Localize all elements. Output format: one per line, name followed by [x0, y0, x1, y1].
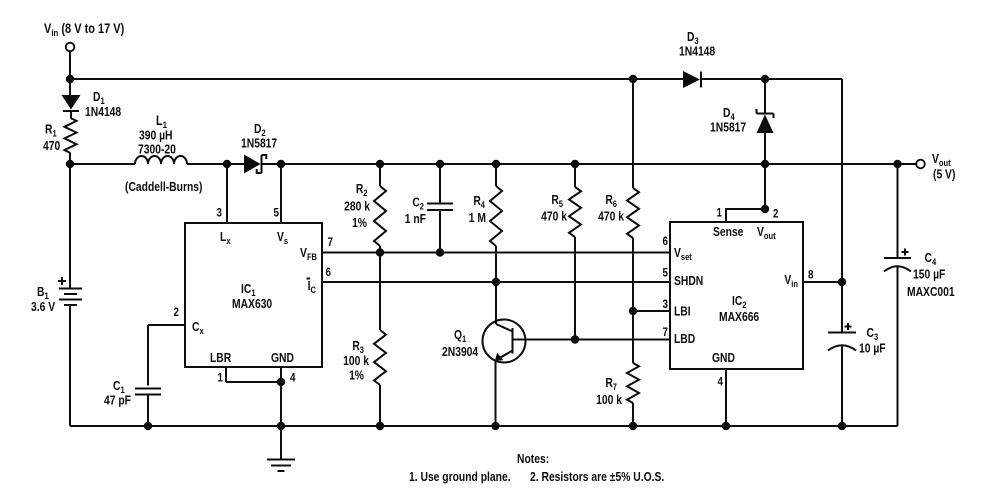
label Notes	[409, 453, 664, 484]
diode D3	[683, 71, 701, 88]
node R4/output-rail junction	[492, 160, 500, 168]
label IC1 MAX630	[232, 283, 272, 311]
svg-text:2: 2	[773, 208, 778, 221]
wire Vin stub	[69, 52, 71, 80]
pin 5 number (IC2)	[663, 267, 668, 280]
label R5 470 k	[541, 194, 567, 224]
IC U2 MAX666 body	[670, 222, 803, 369]
resistor R7	[627, 311, 639, 426]
svg-text:3.6 V: 3.6 V	[31, 301, 55, 314]
pin 6 number (IC2)	[663, 235, 668, 248]
label Vout (5 V)	[932, 153, 956, 182]
wire LBD line (Q1 base)	[527, 339, 670, 341]
svg-text:SHDN: SHDN	[674, 275, 703, 288]
svg-text:(Caddell-Burns): (Caddell-Burns)	[125, 181, 203, 194]
svg-text:280 k: 280 k	[344, 201, 370, 214]
wire top rail (Vin bus)	[70, 79, 842, 282]
pin 7 number	[328, 236, 333, 249]
node Q1-emitter/ground-rail junction	[491, 422, 499, 430]
label pin Sense	[713, 226, 744, 239]
node R1/output-rail junction	[66, 160, 74, 168]
node top-rail/D4 junction	[761, 75, 769, 83]
label B1 3.6 V	[31, 286, 55, 314]
svg-text:LBI: LBI	[674, 306, 691, 319]
label Q1 2N3904	[442, 329, 479, 359]
svg-text:5: 5	[274, 207, 279, 220]
svg-text:1%: 1%	[352, 217, 367, 230]
pin 7 number (IC2)	[663, 326, 668, 339]
pin 4 number	[290, 372, 296, 385]
svg-text:LBR: LBR	[210, 352, 232, 365]
label D2 1N5817	[241, 123, 277, 151]
capacitor C2	[427, 164, 453, 253]
terminal Vout	[916, 160, 925, 169]
svg-text:4: 4	[290, 372, 296, 385]
label pin Vset	[674, 247, 692, 262]
label pin Vout (IC2)	[757, 226, 776, 241]
svg-text:7300-20: 7300-20	[138, 144, 176, 157]
terminal Vin input	[66, 43, 75, 52]
label pin Lx	[220, 231, 231, 246]
node GND/ground-rail junction	[277, 422, 285, 430]
diode D2 (Schottky)	[244, 155, 266, 174]
node C1/ground-rail junction	[144, 422, 152, 430]
svg-text:100 k: 100 k	[343, 355, 369, 368]
label pin GND (IC1)	[271, 352, 294, 365]
svg-text:6: 6	[663, 235, 668, 248]
svg-text:MAX630: MAX630	[232, 298, 272, 311]
diode D4 (Schottky)	[757, 79, 774, 164]
pin 2 number (IC2)	[773, 208, 778, 221]
svg-text:1N5817: 1N5817	[710, 122, 746, 135]
pin 8 number (IC2)	[808, 269, 813, 282]
node R5/output-rail junction	[571, 160, 579, 168]
transistor Q1 2N3904	[483, 282, 528, 426]
svg-text:3: 3	[663, 298, 668, 311]
svg-text:8: 8	[808, 269, 813, 282]
svg-text:470: 470	[43, 140, 60, 153]
svg-text:1 nF: 1 nF	[405, 213, 426, 226]
resistor R4	[490, 164, 502, 282]
node R4/SHDN/Q1 junction	[492, 278, 500, 286]
wire Lx pin 3	[226, 164, 228, 223]
pin 5 number	[274, 207, 279, 220]
resistor R1	[65, 118, 77, 164]
resistor R3	[374, 253, 386, 427]
pin 1 number	[218, 372, 223, 385]
label pin LBD	[674, 333, 695, 346]
capacitor C1	[135, 389, 161, 427]
svg-text:47 pF: 47 pF	[104, 395, 131, 408]
wire Sense pin 1 strap	[726, 209, 765, 222]
label D4 1N5817	[710, 107, 746, 135]
node Vin/top-rail junction	[66, 75, 74, 83]
label L1 390 uH 7300-20	[138, 113, 176, 157]
node C2/output-rail junction	[436, 160, 444, 168]
svg-text:10 µF: 10 µF	[859, 343, 886, 356]
svg-text:3: 3	[217, 207, 222, 220]
wire battery branch	[69, 164, 71, 426]
label pin Cx	[192, 321, 204, 336]
wire Vin pin 8	[803, 281, 842, 283]
svg-text:GND: GND	[712, 352, 735, 365]
wire LBR pin 1	[226, 367, 281, 382]
svg-text:GND: GND	[271, 352, 294, 365]
resistor R5	[569, 164, 581, 340]
svg-text:7: 7	[328, 236, 333, 249]
label R7 100 k	[596, 377, 622, 407]
node D4/output-rail junction	[761, 160, 769, 168]
label D3 1N4148	[679, 31, 716, 59]
node C2/VFB junction	[436, 248, 444, 256]
capacitor C3 (polarized)	[828, 282, 856, 426]
IC U1 MAX630 body	[185, 223, 322, 367]
svg-text:1: 1	[717, 207, 722, 220]
node R6/LBI junction	[629, 307, 637, 315]
pin 1 number (IC2)	[717, 207, 722, 220]
label pin Vin (IC2)	[784, 274, 798, 289]
label R2 280 k 1%	[344, 183, 370, 230]
svg-text:7: 7	[663, 326, 668, 339]
svg-text:150 µF: 150 µF	[913, 269, 945, 282]
svg-text:1 M: 1 M	[469, 212, 486, 225]
pin 3 number	[217, 207, 222, 220]
node C4/output-rail junction	[893, 160, 901, 168]
label R4 1 M	[469, 195, 486, 225]
svg-text:Notes:: Notes:	[517, 453, 549, 466]
pin 3 number (IC2)	[663, 298, 668, 311]
node R2/VFB junction	[376, 248, 384, 256]
pin 4 number (IC2)	[718, 376, 724, 389]
svg-text:6: 6	[326, 266, 331, 279]
svg-text:2. Resistors are ±5% U.O.S.: 2. Resistors are ±5% U.O.S.	[530, 471, 664, 484]
node L-D2/Lx junction	[223, 160, 231, 168]
svg-text:1N4148: 1N4148	[679, 46, 716, 59]
node R5/LBD junction	[571, 335, 579, 343]
node R2/output-rail junction	[376, 160, 384, 168]
wire VFB feedback line	[322, 252, 670, 254]
label R6 470 k	[598, 194, 624, 224]
svg-text:470 k: 470 k	[598, 211, 624, 224]
svg-text:1N4148: 1N4148	[85, 106, 122, 119]
svg-text:4: 4	[718, 376, 724, 389]
wire output rail	[70, 163, 916, 165]
svg-text:2: 2	[174, 306, 179, 319]
label pin GND (IC2)	[712, 352, 735, 365]
svg-text:MAX666: MAX666	[719, 311, 759, 324]
node Sense/Vout-pin junction	[761, 205, 769, 213]
node C3/ground-rail junction	[838, 422, 846, 430]
wire ground rail	[70, 425, 898, 427]
label pin LBR	[210, 352, 232, 365]
node D2/Vs junction	[277, 160, 285, 168]
label pin IC	[307, 279, 317, 295]
label D1 1N4148	[85, 91, 122, 119]
wire Vs pin 5	[280, 164, 282, 223]
wire Cx pin 2	[148, 325, 185, 386]
label C2 1 nF	[405, 197, 426, 227]
svg-text:390 µH: 390 µH	[139, 130, 173, 143]
wire GND pin 4 (IC1)	[280, 367, 282, 426]
svg-text:1: 1	[218, 372, 223, 385]
pin 2 number	[174, 306, 179, 319]
label IC2 MAX666	[719, 295, 759, 324]
battery B1	[58, 277, 82, 305]
wire LBI line	[633, 310, 670, 312]
svg-text:(5 V): (5 V)	[933, 169, 956, 182]
label pin SHDN	[674, 275, 703, 288]
node R7/ground-rail junction	[629, 422, 637, 430]
svg-text:Sense: Sense	[713, 226, 744, 239]
svg-text:470 k: 470 k	[541, 211, 567, 224]
resistor R2	[374, 164, 386, 253]
label Vin (8 V to 17 V)	[44, 21, 124, 38]
label C1 47 pF	[104, 380, 131, 408]
ground	[267, 426, 295, 471]
node top-rail/R6 junction	[629, 75, 637, 83]
label C3 10 uF	[859, 327, 886, 356]
diode D1	[62, 79, 81, 118]
label pin VFB	[300, 247, 317, 262]
svg-text:LBD: LBD	[674, 333, 695, 346]
label C4 150 uF MAXC001	[907, 252, 955, 299]
label pin Vs	[277, 231, 288, 246]
label R3 100 k 1%	[343, 340, 369, 383]
svg-text:1. Use ground plane.: 1. Use ground plane.	[409, 471, 511, 484]
node R3/ground-rail junction	[376, 422, 384, 430]
capacitor C4 (polarized)	[884, 164, 911, 426]
svg-text:MAXC001: MAXC001	[907, 286, 955, 299]
wire GND pin 4 (IC2)	[725, 369, 727, 426]
wire IC-SHDN line	[322, 281, 670, 283]
pin 6 number	[326, 266, 331, 279]
svg-text:2N3904: 2N3904	[442, 346, 479, 359]
svg-text:5: 5	[663, 267, 668, 280]
resistor R6	[627, 79, 639, 311]
label (Caddell-Burns)	[125, 181, 203, 194]
svg-text:1%: 1%	[349, 370, 364, 383]
label pin LBI	[674, 306, 691, 319]
node LBR/GND junction	[277, 378, 285, 386]
label R1 470	[43, 124, 60, 154]
svg-text:1N5817: 1N5817	[241, 138, 277, 151]
node IC2-GND/ground-rail junction	[722, 422, 730, 430]
svg-text:100 k: 100 k	[596, 394, 622, 407]
node pin8/C3 junction	[838, 278, 846, 286]
wire Vout pin 2	[764, 164, 766, 209]
inductor L1	[135, 156, 187, 164]
